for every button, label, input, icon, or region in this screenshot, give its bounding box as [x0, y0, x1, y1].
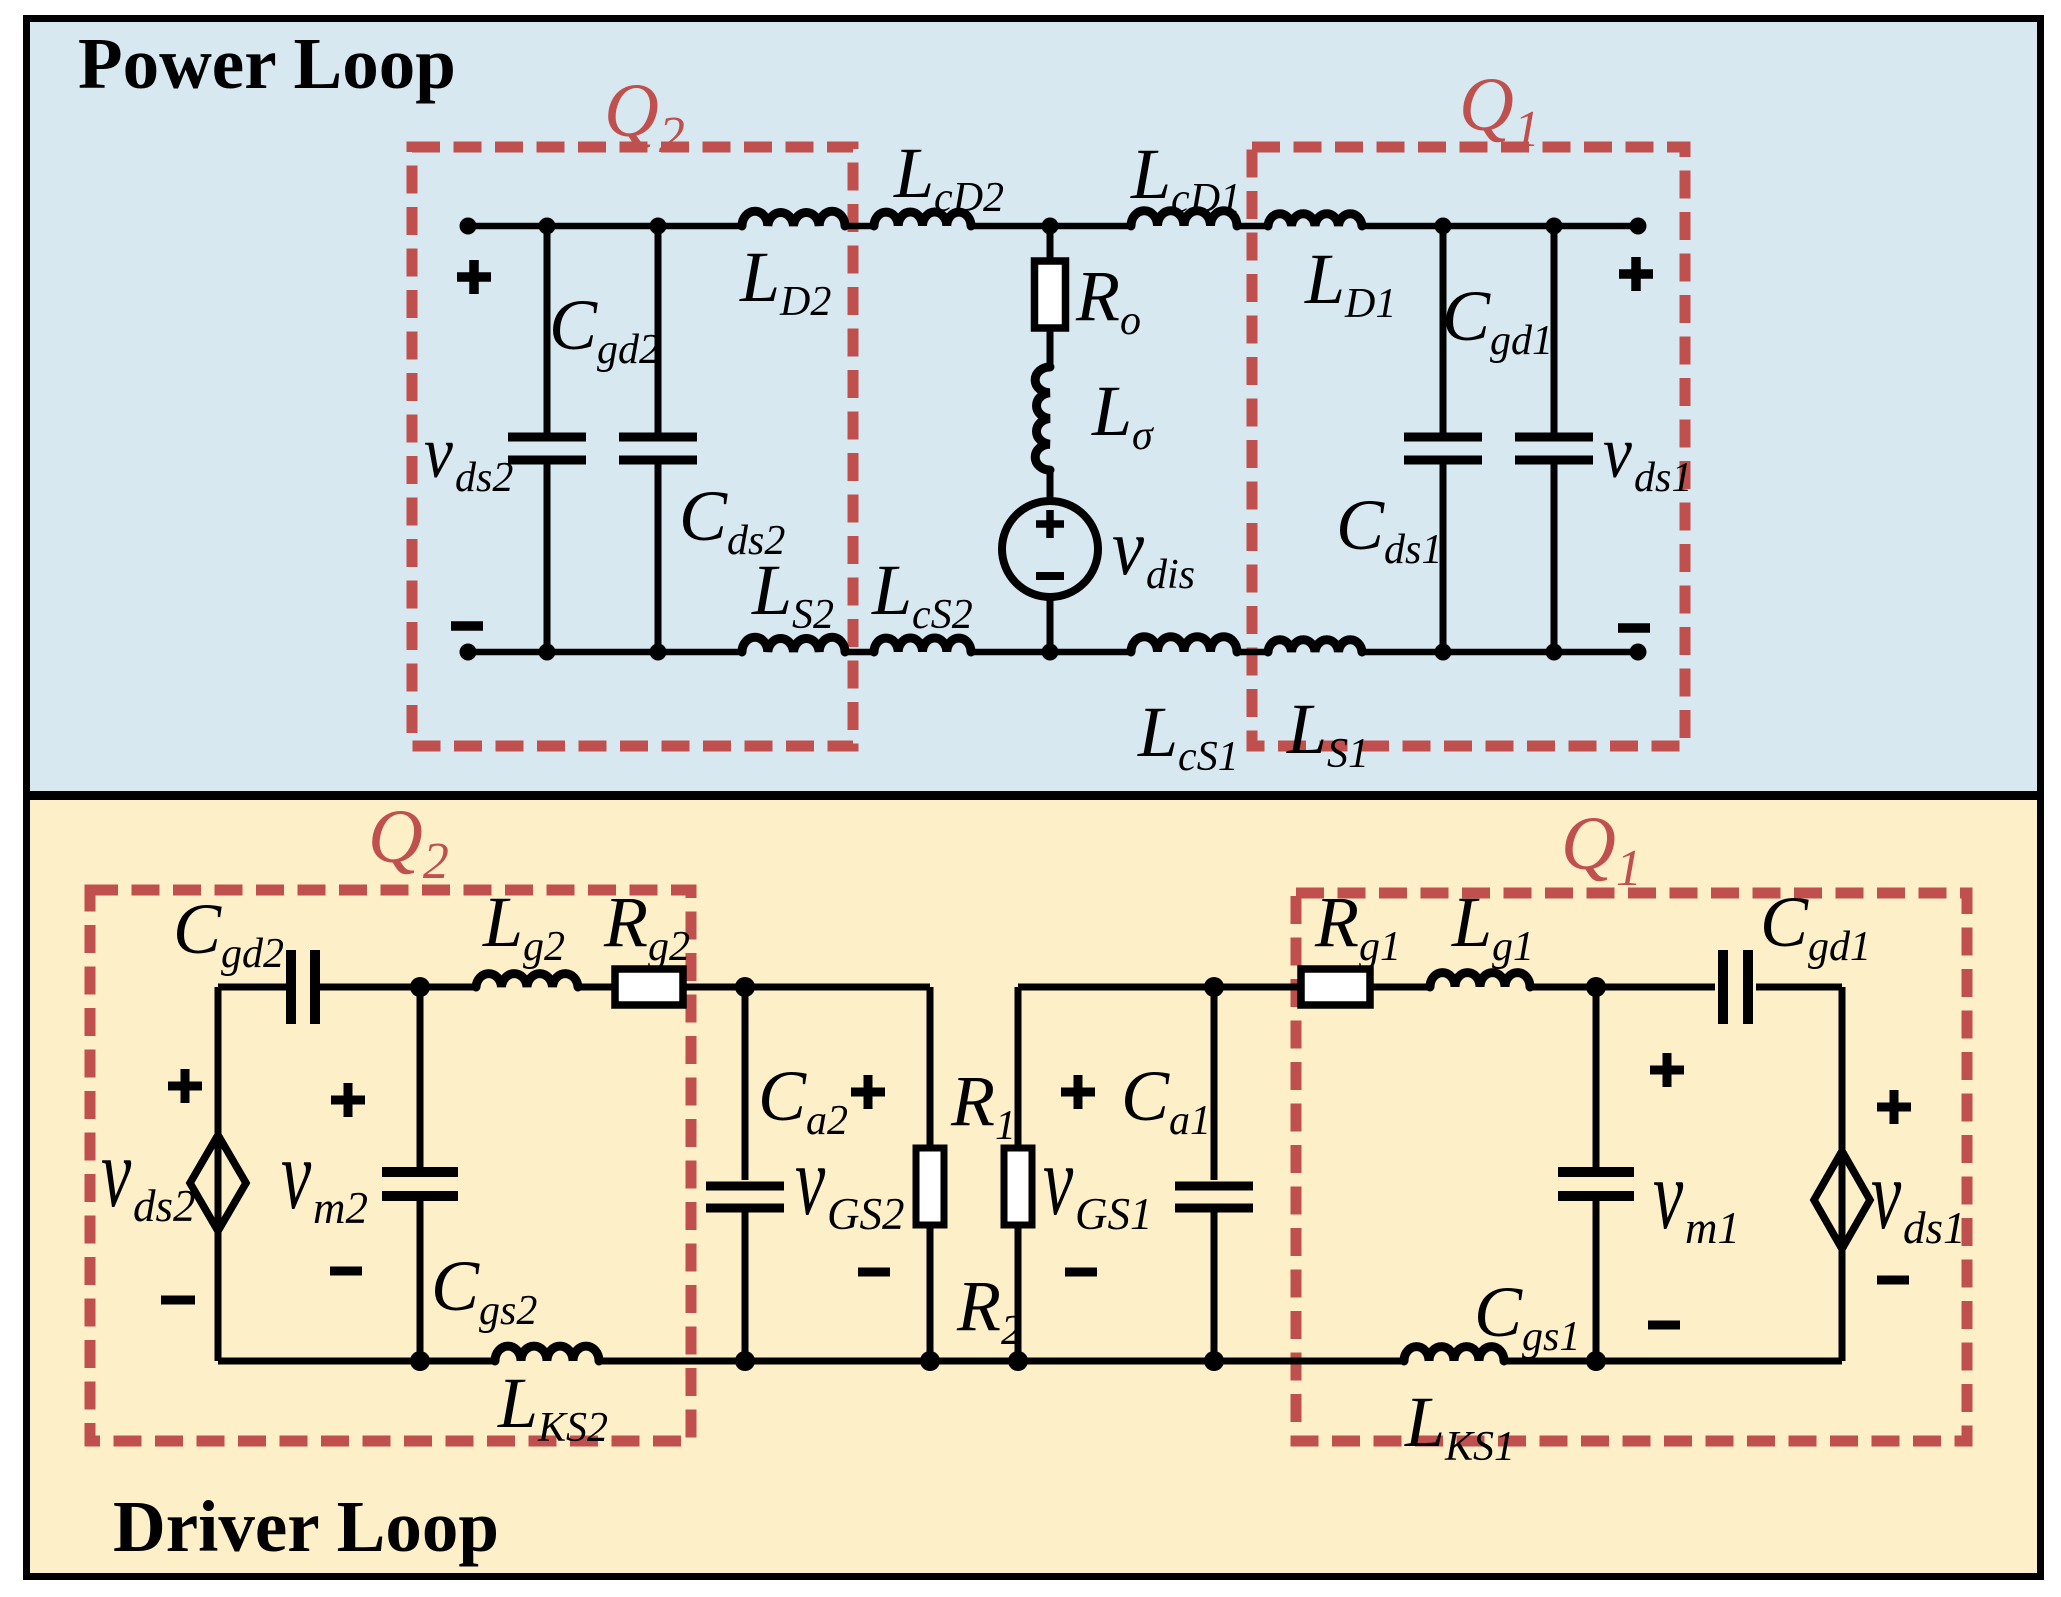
svg-text:Driver Loop: Driver Loop [113, 1486, 499, 1567]
svg-text:v: v [101, 1118, 131, 1228]
svg-text:ds1: ds1 [1634, 455, 1692, 501]
svg-text:v: v [1112, 504, 1144, 592]
svg-text:GS2: GS2 [827, 1189, 905, 1239]
svg-text:GS1: GS1 [1075, 1189, 1153, 1239]
svg-text:ds1: ds1 [1903, 1203, 1966, 1253]
svg-text:v: v [1871, 1140, 1901, 1250]
svg-text:v: v [1653, 1140, 1683, 1250]
svg-text:v: v [795, 1126, 825, 1236]
svg-text:ds2: ds2 [133, 1181, 196, 1231]
svg-text:m2: m2 [313, 1183, 368, 1233]
svg-text:Power Loop: Power Loop [78, 23, 456, 104]
svg-text:v: v [1603, 412, 1632, 494]
svg-text:dis: dis [1146, 552, 1195, 598]
svg-text:v: v [281, 1120, 311, 1230]
svg-text:m1: m1 [1685, 1203, 1740, 1253]
svg-text:ds2: ds2 [455, 455, 513, 501]
svg-text:v: v [1043, 1126, 1073, 1236]
svg-text:v: v [424, 412, 453, 494]
